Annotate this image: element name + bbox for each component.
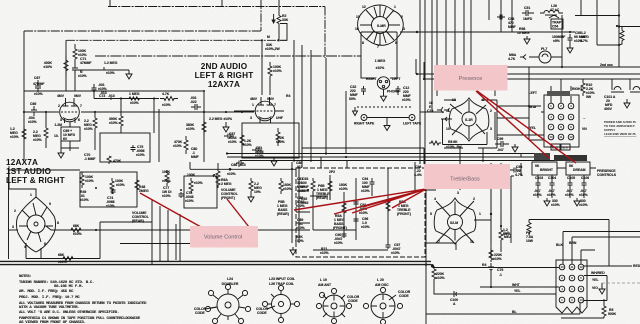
svg-text:4.7K: 4.7K [508,57,516,61]
svg-text:±10%: ±10% [162,194,171,198]
resistor 100K b [110,178,114,194]
svg-text:±10%: ±10% [402,98,411,102]
svg-text:±10%: ±10% [565,193,574,197]
wire bl bottom [426,303,580,314]
resistor P6B vertical [311,178,315,194]
svg-text:LEFT: LEFT [529,91,538,95]
wire arrows C10 [441,117,447,121]
svg-text:CODE: CODE [348,299,359,303]
svg-text:WHT: WHT [512,283,521,287]
svg-text:5: 5 [430,212,432,216]
box tone dashed [296,168,425,257]
svg-text:C79: C79 [497,268,503,272]
svg-text:4.7%: 4.7% [515,173,523,177]
connector J2 block [556,260,587,313]
svg-text:±10%: ±10% [579,193,588,197]
svg-text:68K: 68K [58,253,65,257]
resistor R8A vertical [386,198,390,214]
svg-text:10W: 10W [526,239,534,243]
jack left tape [409,115,415,121]
svg-text:L24: L24 [227,277,233,281]
svg-text:8: 8 [362,41,364,45]
node dots [23,25,618,288]
svg-text:BRN: BRN [569,241,577,245]
tube V2 2nd audio [255,101,275,121]
svg-text:±10%: ±10% [334,241,343,245]
hatched connector bottom [534,153,550,160]
wire y148 upper tone feed [302,148,424,168]
box upper components [80,172,137,207]
wire R2 bypass box [280,24,287,41]
svg-text:LEFT: LEFT [392,77,401,81]
wire socket up [9,166,18,189]
wire right corner [575,0,640,67]
wire mid vertical [238,162,240,167]
svg-text:1MFD: 1MFD [523,17,533,21]
svg-text:±10%: ±10% [109,121,118,125]
svg-text:4MV: 4MV [57,94,65,98]
svg-text:3: 3 [490,127,492,131]
svg-text:YEL: YEL [514,289,521,293]
svg-text:6: 6 [78,118,80,122]
svg-text:YEL: YEL [592,278,599,282]
svg-text:WH/RED: WH/RED [591,271,605,275]
svg-text:2ND AUDIO: 2ND AUDIO [201,62,248,71]
svg-text:PROJ. MOD. I.F. FREQ: 10.7 MC: PROJ. MOD. I.F. FREQ: 10.7 MC [19,296,80,300]
svg-text:1.2M: 1.2M [54,123,62,127]
svg-text:500K: 500K [608,312,617,316]
wire y219 [529,220,640,266]
svg-text:ALL VOLT 'S ARE D.C. UNLESS OT: ALL VOLT 'S ARE D.C. UNLESS OTHERWISE SP… [19,310,119,315]
svg-text:0MV: 0MV [267,97,275,101]
svg-text:S-MR: S-MR [377,24,386,28]
svg-text:(REAR): (REAR) [277,212,289,216]
wire bus y91 [24,90,204,92]
resistor 390K [119,116,123,133]
svg-text:BRIGHT: BRIGHT [540,168,554,172]
wire volume junction [190,162,204,169]
svg-text:BL: BL [512,310,517,314]
wire verticals x292 x295 [292,162,299,243]
wire bottom buses [227,154,554,161]
svg-text:±10%: ±10% [228,140,237,144]
wire 2nd osc bus [507,66,640,68]
resistor R8 zigzag [429,141,441,145]
svg-text:←: ← [583,116,586,120]
svg-text:(FRONT): (FRONT) [397,212,411,216]
svg-text:±10%: ±10% [579,203,588,207]
wire left verticals [491,163,511,243]
svg-text:1: 1 [252,103,254,107]
connector J1 block [544,95,579,147]
svg-text:C86: C86 [231,163,237,167]
svg-text:7: 7 [80,104,82,108]
svg-text:Volume Control: Volume Control [204,235,242,241]
svg-text:±10%: ±10% [186,127,195,131]
svg-text:2MEG: 2MEG [139,189,149,193]
ground arrow [126,70,132,79]
svg-text:C67: C67 [34,76,40,80]
wire bus y243 [120,243,190,245]
shield dashed [357,106,412,108]
svg-text:6: 6 [44,242,46,246]
svg-text:C99: C99 [497,137,503,141]
svg-text:.013: .013 [100,91,107,95]
svg-text:±10%: ±10% [80,198,89,202]
separator double line [0,261,431,264]
svg-text:400V: 400V [604,107,613,111]
svg-text:±10%: ±10% [136,153,145,157]
svg-text:(FRONT): (FRONT) [333,226,347,230]
svg-text:C103: C103 [535,176,543,180]
ground arrow tube cathode [58,148,64,158]
pot box 5K dream [566,162,590,175]
svg-text:3: 3 [12,225,14,229]
svg-text:68K: 68K [73,224,80,228]
resistor 470K [107,156,111,164]
wire box verticals [100,200,176,265]
boxes wht blk [551,144,560,150]
svg-text:1ST AUDIO: 1ST AUDIO [6,167,52,176]
wire tape connector verticals [529,112,544,140]
capacitors .047 row [536,180,587,188]
wire RED lead [584,265,632,267]
dashed gray [602,282,640,284]
svg-text:CODE: CODE [195,311,206,315]
svg-text:LEFT & RIGHT: LEFT & RIGHT [6,176,65,185]
resistor 2.2MEG [44,112,48,148]
resistor 400K [64,55,68,76]
box bottom right [100,133,150,162]
svg-text:±10%: ±10% [243,143,252,147]
wire bus y40 [66,39,287,41]
svg-text:C106: C106 [581,176,589,180]
red arrow presence 2 [477,91,576,163]
svg-text:2 MEG: 2 MEG [221,182,232,186]
svg-text:(REAR): (REAR) [316,196,328,200]
svg-text:±10%: ±10% [273,69,282,73]
switch S2 rotary [462,112,476,126]
svg-text:±10%: ±10% [130,101,139,105]
svg-text:L 20: L 20 [377,278,384,282]
svg-text:±10%: ±10% [194,181,203,185]
wires right of tube [294,40,311,162]
svg-text:9: 9 [49,202,51,206]
svg-text:11: 11 [470,240,474,244]
wire wht yel left [480,286,559,288]
resistor 4.7K horizontal [160,97,178,101]
svg-text:±5%: ±5% [553,39,560,43]
svg-text:3: 3 [457,191,459,195]
svg-text:2.2 MEG ±10%: 2.2 MEG ±10% [209,117,232,121]
svg-text:UHF: UHF [276,116,283,120]
wire tape bus [367,117,409,119]
tube V1 first audio left [60,102,80,122]
pot box 5K bright [532,162,557,175]
svg-text:DREAM: DREAM [573,168,586,172]
svg-text:±10%: ±10% [173,144,182,148]
svg-text:AM OSC: AM OSC [375,283,389,287]
resistor 100K [165,170,169,186]
svg-text:12AX7A: 12AX7A [6,158,38,167]
wire top bus y6.5 [108,7,325,59]
wire verticals [489,0,581,67]
wire switch to right [400,31,480,33]
svg-text:±10%: ±10% [361,225,370,229]
svg-text:12AX7A: 12AX7A [208,80,240,89]
svg-text:CODE: CODE [257,311,268,315]
wire right-mid extra verticals [415,112,529,190]
capacitor C90 sym [342,232,347,238]
svg-text:±10%: ±10% [10,135,19,139]
resistor R5A vertical [342,200,346,216]
wire y267 [433,267,560,269]
box trap C54 [551,19,563,29]
capacitor C69 electrolytic box [61,127,80,141]
capacitor C96 sym [354,216,359,224]
svg-text:C51: C51 [524,6,530,10]
svg-text:RED: RED [633,264,640,268]
wire connector left lead [497,67,541,140]
svg-text:BLK: BLK [556,243,564,247]
resistor 150K tone [328,178,332,194]
svg-text:.1: .1 [499,273,502,277]
svg-text:.013: .013 [108,94,115,98]
resistor 220K [432,266,436,282]
svg-text:S2-M: S2-M [450,221,458,225]
wire chassis top y58 [95,55,361,57]
resistor R2 33K top [277,0,281,40]
svg-text:VIO: VIO [592,286,598,290]
wire internal verticals [313,168,388,243]
svg-text:6V: 6V [63,137,68,141]
svg-text:MMF: MMF [508,25,516,29]
svg-text:±10%,2W: ±10%,2W [265,47,280,51]
svg-text:±10%: ±10% [283,187,292,191]
svg-text:.047: .047 [497,148,504,152]
wire WHT/RED [584,276,607,301]
resistor 380K [202,118,206,136]
svg-text:2nd osc: 2nd osc [600,63,613,67]
wire x426 long vertical [425,190,427,324]
svg-text:±10%: ±10% [33,138,42,142]
wire top leads [581,250,595,264]
resistor 2.2MEG [249,178,253,194]
red arrow volume 1 [140,193,201,227]
ground arrow tone [290,247,296,255]
svg-text:RIGHT TAPE: RIGHT TAPE [354,122,375,126]
switch S3 function rotary [434,198,476,244]
svg-text:±10%: ±10% [162,103,171,107]
svg-text:1: 1 [394,5,396,9]
svg-text:470K: 470K [113,159,122,163]
resistor 1.2K [240,132,244,148]
svg-text:8: 8 [57,221,59,225]
resistor 1.2MEG left [22,126,26,142]
svg-text:R4: R4 [286,94,290,98]
wire tone box bottom links [296,188,388,250]
ground arrow shield [353,107,358,116]
svg-text:1: 1 [30,193,32,197]
svg-text:LEFT & RIGHT: LEFT & RIGHT [195,71,254,80]
wire 1.2MEG branch [75,67,129,70]
cap .001 at top [92,84,97,94]
svg-text:4MV: 4MV [250,97,258,101]
wire box around switch [443,100,498,148]
svg-text:50%: 50% [349,97,356,101]
svg-text:10%: 10% [254,190,261,194]
svg-text:12: 12 [362,5,366,9]
capacitor C8A top mid [236,161,244,166]
wire pins top leads [551,79,571,103]
svg-text:CONTROLS: CONTROLS [597,173,617,177]
svg-text:AM ANT: AM ANT [318,283,332,287]
box volume control [190,226,258,248]
red arrow volume 2 [227,199,249,227]
svg-text:±10%: ±10% [547,193,556,197]
tube V3 socket blob [17,197,56,252]
svg-text:47MMF: 47MMF [80,61,92,65]
resistor 100K top [73,44,77,64]
svg-text:±10%: ±10% [84,127,93,131]
svg-text:88-108 MC F.M.: 88-108 MC F.M. [54,285,83,289]
svg-text:2: 2 [401,15,403,19]
wire bus y112 left [24,111,254,113]
svg-text:VN: VN [582,127,587,131]
svg-text:7: 7 [377,45,379,49]
svg-text:3: 3 [403,27,405,31]
svg-text:1: 1 [479,212,481,216]
box cathode cluster [242,123,299,158]
svg-text:12: 12 [569,135,573,139]
svg-text:10: 10 [560,265,564,269]
wire bottom-left of connector2 [426,243,456,250]
resistor 100K b [189,178,193,193]
wire presence-area verticals [511,153,584,198]
svg-text:100K: 100K [162,170,171,174]
box presence [434,65,508,91]
svg-text:±10%: ±10% [376,66,385,70]
svg-text:C66: C66 [30,102,36,106]
svg-text:47MMF: 47MMF [33,82,45,86]
wire x326 x346 [326,58,346,153]
jack right tape [361,115,367,121]
svg-text:±10%: ±10% [339,187,348,191]
svg-text:R4: R4 [482,263,486,267]
svg-text:±10%: ±10% [162,179,171,183]
wire y169 bus [204,169,296,176]
svg-text:2: 2 [14,209,16,213]
svg-text:R8 6K: R8 6K [448,140,458,144]
text power plug note [604,120,637,136]
wire y318 [561,317,604,319]
svg-text:±10%: ±10% [361,189,370,193]
svg-text:7: 7 [274,103,276,107]
wire verticals right of switch [420,0,471,164]
svg-text:±10%: ±10% [185,199,194,203]
svg-text:2P2: 2P2 [329,170,335,174]
svg-text:L23 INPUT COIL: L23 INPUT COIL [269,277,295,281]
wire box left x204 [203,91,205,162]
resistor 1.2MEG right [619,27,624,46]
svg-text:±10%: ±10% [359,211,368,215]
svg-text:LEAD END VIEW OF PL: LEAD END VIEW OF PL [604,132,637,136]
capacitor C97 sym [386,243,391,249]
svg-text:±10%: ±10% [43,65,52,69]
svg-text:L 19: L 19 [320,278,327,282]
svg-text:4: 4 [434,197,436,201]
svg-text:Presence: Presence [459,76,483,82]
svg-text:1 MEG: 1 MEG [375,59,386,63]
wire right links [425,163,491,258]
svg-text:M: M [267,35,270,39]
capacitor C100 [452,291,460,297]
svg-text:2: 2 [58,104,60,108]
box switch body [361,32,397,78]
svg-text:10: 10 [355,27,359,31]
pins row1 [548,103,574,140]
svg-text:±10%: ±10% [106,204,115,208]
svg-text:10.: 10. [54,134,59,138]
svg-text:4.7K: 4.7K [162,92,170,96]
svg-text:2: 2 [490,109,492,113]
jack phono [377,77,389,89]
svg-text:2: 2 [473,197,475,201]
svg-text:BLK: BLK [563,146,568,150]
svg-text:±10%: ±10% [533,193,542,197]
svg-text:±10%: ±10% [551,203,560,207]
wire from x426 to tone [426,189,436,191]
svg-text:33K: 33K [282,18,289,22]
svg-text:3: 3 [250,116,252,120]
svg-text:.1 MMF: .1 MMF [84,157,96,161]
svg-text:4.7%: 4.7% [580,39,588,43]
svg-text:±10%: ±10% [34,92,43,96]
svg-text:±10%: ±10% [58,260,67,264]
svg-text:11: 11 [356,15,360,19]
svg-text:100K: 100K [187,173,196,177]
svg-text:LEFT TAPE: LEFT TAPE [403,122,422,126]
ground arrow right [599,283,605,294]
svg-text:WITH A VACUUM TUBE VOLTMETER.: WITH A VACUUM TUBE VOLTMETER. [19,306,79,310]
cap symbols top [611,79,640,92]
svg-text:C105: C105 [567,176,575,180]
svg-text:RIGHT: RIGHT [366,77,377,81]
svg-text:AM. MOD. I.F. FREQ: 455 KC: AM. MOD. I.F. FREQ: 455 KC [19,290,74,294]
resistor 100K tube plate [268,62,272,79]
wire socket to bus [46,226,68,230]
resistor 150K [279,178,283,194]
svg-text:10: 10 [446,127,450,131]
svg-text:0MV: 0MV [74,94,82,98]
ground arrow below cathode box [271,158,277,166]
svg-text:MMF: MMF [191,155,199,159]
svg-text:12: 12 [579,265,583,269]
svg-text:±10%: ±10% [493,257,502,261]
box treble/bass [424,164,510,189]
wire bus y74 y79 [416,74,640,79]
wire single line right of separator [431,264,433,266]
wire bus y98 [75,70,159,99]
wire x24 vertical [23,31,25,160]
resistor 2.2MEG mid [93,112,97,132]
svg-text:CODE: CODE [399,294,410,298]
svg-text:±10%: ±10% [227,172,236,176]
red arrow presence 1 [476,91,549,158]
switch S1 rotary selector [372,17,389,34]
resistor 100K a [80,172,84,188]
svg-text:±10%: ±10% [320,251,329,255]
